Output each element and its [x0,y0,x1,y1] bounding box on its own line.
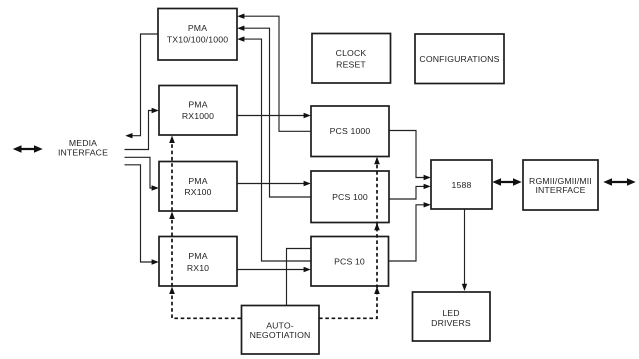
svg-text:DRIVERS: DRIVERS [431,318,471,328]
block PCS 1000 [311,106,389,157]
wire PMA RX1000 to PCS 1000 (arrow right) [237,113,311,118]
wire AUTO-NEGOTIATION to PCS 10 [287,249,312,306]
media bidirectional arrow [13,145,43,152]
wire PMA RX10 to PCS 10 (arrow right) [237,267,311,272]
block AUTO-NEGOTIATION [242,306,320,355]
svg-text:NEGOTIATION: NEGOTIATION [250,330,311,340]
wire PCS 100 to 1588 (arrow right) [389,184,431,199]
block PMA RX100 [159,162,237,212]
dashed wire AUTO-NEGOTIATION to PMA RX chain [169,136,241,319]
wire PMA TX out to media interface (arrow left) [125,34,158,138]
wire PCS 10 to PMA TX (arrow left) [237,36,311,261]
label MEDIA INTERFACE [58,138,108,158]
svg-text:MEDIA: MEDIA [69,138,97,148]
svg-text:PCS 100: PCS 100 [332,192,368,202]
svg-text:RX1000: RX1000 [182,111,214,121]
svg-text:LED: LED [442,308,459,318]
wire 1588 to LED DRIVERS (arrow down) [462,209,467,291]
svg-text:AUTO-: AUTO- [266,320,294,330]
block CLOCK RESET [312,34,391,84]
svg-text:TX10/100/1000: TX10/100/1000 [167,35,228,45]
wire PMA RX100 to PCS 100 (arrow right) [237,181,311,186]
svg-text:CONFIGURATIONS: CONFIGURATIONS [419,54,499,64]
dashed wire AUTO-NEGOTIATION to PCS chain [319,157,380,318]
svg-text:PMA: PMA [188,99,207,109]
block PCS 100 [311,171,389,223]
wire media stub to PMA RX100 (arrow right) [125,157,159,190]
wire PCS 1000 to 1588 (arrow right) [389,131,431,181]
svg-text:PCS 10: PCS 10 [334,256,365,266]
svg-text:PMA: PMA [188,176,207,186]
svg-text:INTERFACE: INTERFACE [58,148,108,158]
block RGMII/GMII/MII INTERFACE [523,160,598,210]
svg-text:1588: 1588 [452,180,472,190]
block PMA TX10/100/1000 [158,9,237,61]
svg-text:PCS 1000: PCS 1000 [330,126,371,136]
wire PCS 10 to 1588 (arrow right) [389,202,431,261]
block LED DRIVERS [413,292,491,341]
wire media stub to PMA RX10 (arrow right) [125,165,159,265]
wire PCS 1000 to PMA TX (arrow left) [237,14,311,132]
block PMA RX1000 [159,86,237,136]
svg-text:RESET: RESET [336,59,366,69]
block PCS 10 [311,237,389,287]
bidirectional arrow RGMII interface to external [603,178,635,185]
svg-text:CLOCK: CLOCK [336,48,367,58]
wire PCS 100 to PMA TX (arrow left) [237,26,311,198]
wire media stub to PMA RX1000 (arrow right) [125,108,159,150]
svg-text:RX100: RX100 [184,187,211,197]
bidirectional arrow 1588 to RGMII interface [492,178,521,185]
svg-text:PMA: PMA [188,23,207,33]
block 1588 [431,160,492,209]
svg-text:INTERFACE: INTERFACE [535,185,585,195]
svg-text:PMA: PMA [188,251,207,261]
block CONFIGURATIONS [415,34,504,84]
svg-text:RX10: RX10 [187,263,209,273]
block PMA RX10 [159,237,237,287]
